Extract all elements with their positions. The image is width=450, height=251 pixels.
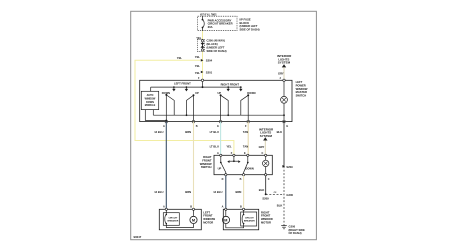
svg-text:DOWN: DOWN [162,91,170,95]
svg-text:DOWN: DOWN [246,167,254,171]
svg-text:BRN: BRN [185,130,191,134]
svg-text:SYSTEM: SYSTEM [278,61,291,65]
svg-text:LEFT FRONT: LEFT FRONT [174,82,191,86]
svg-text:BREAKER: BREAKER [167,220,178,223]
svg-text:SYSTEM: SYSTEM [260,134,273,138]
svg-text:TAN: TAN [243,130,248,134]
svg-text:BLK: BLK [277,204,283,208]
svg-text:M: M [224,219,227,223]
svg-text:YEL: YEL [177,56,183,60]
svg-text:93047: 93047 [134,235,142,239]
svg-text:YEL: YEL [226,144,232,148]
svg-text:14 BLU: 14 BLU [154,130,163,134]
svg-text:BREAKER: BREAKER [244,220,255,223]
svg-text:A: A [163,125,165,128]
svg-text:A: A [222,206,224,209]
svg-text:30A: 30A [208,25,213,29]
svg-text:YEL: YEL [195,64,201,68]
svg-text:UP: UP [218,167,222,171]
svg-text:UP: UP [218,91,222,95]
svg-text:S209: S209 [286,165,293,169]
svg-text:LT BLU: LT BLU [210,144,219,148]
svg-text:CIRCUIT: CIRCUIT [168,217,178,219]
svg-text:BRN: BRN [185,190,191,194]
svg-text:UP: UP [195,91,199,95]
svg-text:(UNDER LEFT: (UNDER LEFT [207,45,225,49]
svg-text:RIGHT FRONT: RIGHT FRONT [221,82,240,86]
svg-text:MOTOR: MOTOR [203,220,213,224]
svg-text:HOT AT ALL TIMES: HOT AT ALL TIMES [200,12,217,16]
svg-text:DOWN: DOWN [247,91,255,95]
svg-text:BLOCK: BLOCK [240,21,250,25]
svg-text:14 BLU: 14 BLU [154,190,163,194]
svg-text:MOTOR: MOTOR [261,220,271,224]
svg-text:YEL: YEL [195,55,201,59]
svg-text:C200 (48 WAY): C200 (48 WAY) [207,39,226,43]
svg-text:YEL: YEL [195,71,201,75]
svg-text:LT BLU: LT BLU [210,130,219,134]
svg-text:A: A [163,206,165,209]
svg-text:BLK: BLK [277,130,283,134]
svg-text:B: B [240,178,242,181]
svg-text:B: B [190,206,192,209]
svg-text:D: D [222,178,224,181]
svg-text:S209: S209 [262,197,269,201]
svg-text:OF DASH): OF DASH) [289,231,302,235]
svg-text:(BLACK): (BLACK) [207,42,218,46]
svg-text:C: C [262,152,264,155]
svg-text:C: C [268,178,270,181]
svg-text:14 BLU: 14 BLU [213,190,222,194]
svg-text:G: G [286,125,288,128]
svg-text:B: B [196,125,198,128]
svg-text:A: A [217,152,219,155]
svg-text:S204: S204 [206,59,213,63]
svg-text:SWITCH: SWITCH [296,93,307,97]
svg-text:BRN: BRN [236,190,242,194]
svg-text:SIDE OF DASH): SIDE OF DASH) [240,28,260,32]
svg-text:BLK: BLK [259,188,265,192]
svg-text:M: M [192,219,195,223]
svg-text:SWITCH: SWITCH [201,165,212,169]
svg-text:G200: G200 [286,193,293,197]
svg-text:TAN: TAN [243,144,248,148]
svg-text:(UNDER LEFT: (UNDER LEFT [240,24,258,28]
svg-text:SIDE OF DASH): SIDE OF DASH) [207,49,227,53]
svg-text:CIRCUIT: CIRCUIT [245,217,255,219]
svg-text:S201: S201 [206,70,213,74]
svg-text:GRY: GRY [278,72,284,76]
svg-text:I/P FUSE: I/P FUSE [240,17,251,21]
svg-text:GRY: GRY [259,145,265,149]
svg-text:B: B [240,206,242,209]
svg-text:MODULE: MODULE [145,104,156,107]
